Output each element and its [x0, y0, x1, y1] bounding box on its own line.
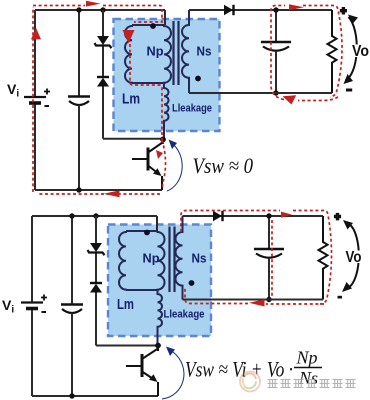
- red arrow right output rail (bottom): [281, 212, 292, 218]
- svg-text:Vsw ≈ Vi + Vo ·: Vsw ≈ Vi + Vo ·: [185, 357, 293, 382]
- resistor load (top): [328, 10, 337, 93]
- inductor Lleakage (bottom): [158, 290, 163, 346]
- polarity dot Ns (bottom): [189, 280, 195, 286]
- wire left branch (bottom): [31, 216, 33, 396]
- svg-text:Lm: Lm: [117, 296, 134, 313]
- node collector (bottom): [155, 343, 161, 349]
- node bottom rail / cap (bottom): [69, 393, 74, 398]
- diode clamp (bottom): [90, 283, 102, 293]
- label plus (top): [340, 7, 347, 15]
- label Vsw equation (top): [193, 153, 254, 178]
- winding Ns (top): [182, 10, 189, 93]
- arrow annotation to collector (bottom): [162, 347, 184, 400]
- label Lleakage (bottom): [164, 309, 205, 321]
- label Vsw equation (bottom): [185, 357, 293, 382]
- label Vo (top): [350, 43, 370, 60]
- inductor Lm (bottom): [119, 231, 126, 290]
- wire transformer bottom (top): [132, 82, 164, 84]
- label Np (top): [147, 44, 164, 59]
- red loop secondary (bottom): [181, 211, 332, 305]
- inductor Lleakage (top): [164, 83, 169, 139]
- watermark text: [268, 380, 356, 389]
- node input rail / cap (bottom): [69, 213, 74, 218]
- node input rail / clamp (top): [100, 7, 105, 12]
- arrow Vo arc (top): [346, 17, 357, 80]
- wire clamp branch (top): [103, 10, 164, 139]
- battery Vi (bottom): [21, 295, 47, 314]
- winding Ns (bottom): [176, 216, 183, 300]
- wire input top rail (bottom): [32, 215, 157, 217]
- capacitor input (bottom): [61, 216, 83, 396]
- wire input top rail (top): [35, 9, 165, 11]
- red arrow right top rail (top): [86, 1, 101, 7]
- wire bottom rail (top): [35, 189, 162, 191]
- polarity dot Np (top): [150, 23, 156, 29]
- label Lleakage (top): [172, 103, 212, 115]
- svg-text:Ns: Ns: [197, 44, 212, 59]
- label minus (top): [346, 89, 352, 92]
- watermark logo: [240, 372, 260, 392]
- wire clamp branch (bottom): [96, 216, 158, 346]
- winding Np (bottom): [158, 231, 165, 290]
- diode output (bottom): [213, 211, 223, 221]
- wire left branch (top): [34, 10, 36, 190]
- label Vi (top): [7, 81, 19, 100]
- label Vi (bottom): [2, 297, 14, 316]
- wire output rail (top): [189, 9, 332, 11]
- red arrow left output bottom (bottom): [249, 299, 265, 306]
- node output cap top (top): [273, 7, 278, 12]
- transformer box (top): [114, 19, 220, 131]
- node output cap top (bottom): [266, 213, 271, 218]
- label Ns (top): [197, 44, 212, 59]
- polarity dot Np (bottom): [144, 230, 150, 236]
- node input rail / clamp (bottom): [93, 213, 98, 218]
- arrow annotation to collector (top): [167, 140, 182, 192]
- wire transformer bottom (bottom): [126, 289, 158, 291]
- diode clamp (top): [97, 77, 109, 87]
- zener diode clamp (bottom): [88, 243, 105, 255]
- resistor load (bottom): [319, 216, 328, 300]
- capacitor input (top): [68, 10, 90, 190]
- red arrow left output bottom (top): [283, 95, 297, 104]
- wire output bottom rail (bottom): [183, 299, 324, 301]
- capacitor output (bottom): [254, 216, 284, 300]
- label Lm (bottom): [117, 296, 134, 313]
- node collector (top): [160, 137, 166, 143]
- polarity dot Ns (top): [195, 76, 201, 82]
- node input rail / cap (top): [76, 7, 81, 12]
- svg-text:Lleakage: Lleakage: [172, 103, 212, 115]
- transformer box (bottom): [108, 225, 211, 337]
- label plus (bottom): [334, 213, 341, 221]
- node bottom rail / cap (top): [76, 187, 81, 192]
- inductor Lm (top): [125, 25, 132, 83]
- svg-text:Lleakage: Lleakage: [164, 309, 205, 321]
- transistor Q (bottom): [126, 346, 158, 397]
- winding Np (top): [164, 25, 171, 83]
- wire output bottom rail (top): [189, 92, 332, 94]
- red arrow right output rail (top): [289, 4, 304, 10]
- wire transformer top (bottom): [126, 216, 158, 231]
- red arrow left bottom rail (top): [104, 190, 120, 197]
- node output cap bottom (top): [273, 90, 278, 95]
- svg-text:Lm: Lm: [122, 91, 140, 108]
- red arrow down Lm (top): [123, 30, 135, 44]
- wire bottom rail (bottom): [32, 395, 158, 397]
- transistor Q (top): [132, 139, 163, 190]
- label Lm (top): [122, 91, 140, 108]
- svg-text:Np: Np: [143, 251, 160, 266]
- label Ns (bottom): [192, 251, 207, 266]
- label Vo (bottom): [344, 249, 363, 266]
- label Np (bottom): [143, 251, 160, 266]
- fraction Np/Ns (bottom): [294, 348, 322, 389]
- wire output rail (bottom): [183, 215, 324, 217]
- capacitor output (top): [261, 10, 291, 93]
- core (top): [174, 21, 179, 85]
- red arrow up left side (top): [31, 28, 41, 40]
- zener diode clamp (top): [95, 36, 112, 48]
- wire transformer top (top): [132, 10, 165, 25]
- arrow Vo arc (bottom): [346, 224, 359, 288]
- red loop primary (top): [33, 6, 166, 195]
- svg-text:Np: Np: [147, 44, 164, 59]
- svg-text:Np: Np: [296, 348, 318, 368]
- battery Vi (top): [24, 89, 50, 108]
- red loop secondary discharge (top): [271, 6, 342, 101]
- node output cap bottom (bottom): [266, 297, 271, 302]
- svg-text:Vsw ≈ 0: Vsw ≈ 0: [193, 153, 254, 178]
- svg-text:Ns: Ns: [192, 251, 207, 266]
- red arrow transistor (top): [156, 150, 163, 159]
- core (bottom): [170, 227, 175, 293]
- label minus (bottom): [338, 296, 343, 299]
- diode output (top): [224, 5, 234, 15]
- svg-text:Vo: Vo: [346, 249, 362, 266]
- svg-text:Vo: Vo: [352, 43, 369, 60]
